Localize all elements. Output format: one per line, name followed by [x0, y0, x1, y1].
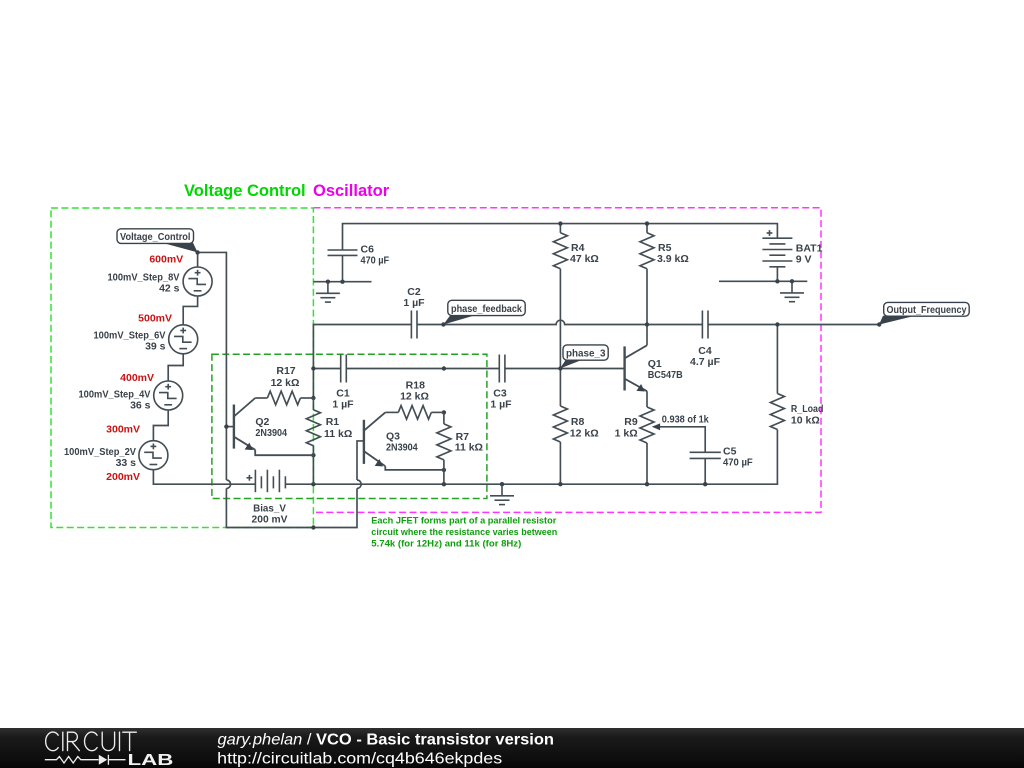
svg-text:12 kΩ: 12 kΩ	[400, 390, 429, 402]
wire: Voltage_Control node to control column	[198, 252, 227, 480]
svg-text:11 kΩ: 11 kΩ	[324, 428, 352, 440]
junction: R17 / R1	[311, 396, 315, 400]
svg-text:circuit where the resistance v: circuit where the resistance varies betw…	[371, 527, 557, 538]
junction: BAT1 negative lead	[775, 279, 779, 283]
junction: bottom rail / ground	[500, 482, 504, 486]
green dashed box: JFET parallel resistor section	[212, 354, 487, 498]
wire: source chain S1 top lead	[197, 252, 199, 267]
transistor Q2 2N3904	[234, 398, 314, 455]
wire: Q3 base column up to base	[357, 441, 364, 480]
green dashed box: Voltage Control section	[51, 208, 313, 528]
node callout phase_3	[560, 345, 608, 369]
voltage source 100mV_Step_4V	[79, 381, 183, 411]
CircuitLab logo: resistor-diode glyph	[45, 755, 126, 765]
annotation note about JFET parallel resistor	[371, 515, 557, 549]
node callout Voltage_Control	[117, 229, 198, 253]
svg-text:R4: R4	[571, 242, 585, 254]
junction: C1 rail / R18-R7 column	[442, 366, 446, 370]
junction: top rail / R5	[645, 221, 649, 225]
svg-text:36 s: 36 s	[130, 399, 151, 411]
wire: R5 top lead	[646, 224, 648, 233]
junction: Q2 emitter / R1	[311, 453, 315, 457]
wire: output rail C4 to R_Load and Output_Frequency	[708, 324, 879, 326]
wire: R9 wiper to C5	[659, 427, 706, 453]
voltage source 100mV_Step_8V	[108, 267, 213, 296]
resistor R_Load	[770, 394, 823, 430]
svg-text:Output_Frequency: Output_Frequency	[887, 304, 967, 316]
junction: C6 ground wire / ground stem	[326, 280, 330, 284]
capacitor C3	[490, 355, 512, 411]
junction: bottom rail / R8	[558, 482, 562, 486]
svg-text:33 s: 33 s	[116, 457, 137, 469]
svg-text:42 s: 42 s	[159, 283, 180, 295]
svg-text:470 µF: 470 µF	[361, 254, 390, 266]
svg-text:R8: R8	[571, 416, 585, 428]
svg-text:200mV: 200mV	[106, 471, 140, 483]
wire: phase_feedback rail with hop over R4 column	[417, 320, 702, 324]
junction: bottom rail / R9	[645, 482, 649, 486]
junction: C6 ground wire / C6 lead	[340, 280, 344, 284]
svg-text:12 kΩ: 12 kΩ	[271, 377, 300, 389]
node callout Output_Frequency	[879, 302, 969, 324]
resistor R5	[640, 233, 689, 269]
wire: Q2 base lead	[226, 426, 234, 428]
transistor Q1 BC547B	[625, 345, 683, 391]
wire: control column hop over bottom rail	[226, 480, 230, 488]
resistor R8	[553, 406, 598, 442]
junction: output rail / R_Load	[775, 322, 779, 326]
svg-text:Voltage_Control: Voltage_Control	[120, 231, 191, 243]
svg-text:500mV: 500mV	[138, 312, 172, 324]
wire: Q3 base column hop over bottom rail	[357, 480, 361, 488]
node Output_Frequency junction	[877, 322, 881, 326]
capacitor C4	[690, 311, 721, 369]
junction: BAT1 ground stem	[790, 279, 794, 283]
svg-text:10 kΩ: 10 kΩ	[791, 415, 820, 427]
junction: Q3 emitter / R7	[442, 468, 446, 472]
CircuitLab logo: CIRCUIT letters	[46, 732, 137, 751]
svg-text:Voltage Control: Voltage Control	[184, 182, 306, 200]
svg-text:R17: R17	[276, 365, 295, 377]
wire: phase_3 rail C1 to C3	[346, 368, 499, 370]
svg-text:R5: R5	[658, 242, 672, 254]
voltage source 100mV_Step_6V	[94, 325, 198, 354]
capacitor C2	[403, 286, 425, 338]
svg-text:R_Load: R_Load	[791, 403, 824, 415]
wire: S4 bottom to bottom rail and battery	[153, 470, 255, 485]
wire: Q1 emitter to R9	[646, 391, 648, 407]
svg-text:47 kΩ: 47 kΩ	[570, 253, 599, 265]
node Voltage_Control junction	[195, 250, 199, 254]
junction: bottom rail / C5	[703, 482, 707, 486]
wire: R4 top lead	[559, 224, 561, 233]
svg-text:1 µF: 1 µF	[403, 297, 425, 309]
wire: S3 to S4 jog	[153, 410, 168, 441]
junction: control bias wire corner	[311, 525, 315, 529]
wire: R1 column phase_3 node down to R17 node	[312, 369, 314, 399]
voltage source 100mV_Step_2V	[64, 441, 168, 470]
svg-text:phase_feedback: phase_feedback	[451, 303, 522, 315]
resistor R4	[553, 233, 598, 269]
wire: top supply rail	[343, 224, 778, 250]
resistor R9 potentiometer	[615, 407, 709, 443]
transistor Q3 2N3904	[364, 412, 444, 470]
wire: R_Load top lead	[776, 325, 778, 394]
junction: bottom rail / R7 column	[442, 482, 446, 486]
wire: R7/Q3 emitter node to bottom rail	[443, 470, 445, 484]
svg-text:11 kΩ: 11 kΩ	[455, 442, 483, 454]
wire: R5 bottom lead to output rail and Q1 collector	[646, 269, 648, 346]
wire: R1 bottom to battery rail	[312, 455, 314, 484]
svg-text:phase_3: phase_3	[566, 347, 606, 359]
svg-text:1 µF: 1 µF	[332, 398, 354, 410]
wire: R8 top lead	[559, 369, 561, 407]
svg-text:5.74k (for 12Hz) and 11k (for: 5.74k (for 12Hz) and 11k (for 8Hz)	[371, 538, 521, 549]
svg-text:4.7 µF: 4.7 µF	[690, 356, 721, 368]
wire: R9 bottom lead	[646, 443, 648, 484]
capacitor C5	[690, 445, 754, 468]
ground (BAT1)	[780, 281, 804, 301]
wire: BAT1 bottom lead	[776, 267, 778, 282]
svg-text:470 µF: 470 µF	[723, 456, 753, 468]
svg-text:BC547B: BC547B	[648, 369, 683, 381]
svg-text:3.9 kΩ: 3.9 kΩ	[657, 253, 689, 265]
capacitor C1	[332, 355, 354, 411]
battery Bias_V	[247, 470, 288, 526]
svg-text:R1: R1	[326, 416, 340, 428]
resistor R7	[437, 412, 483, 470]
svg-text:gary.phelan / VCO - Basic tran: gary.phelan / VCO - Basic transistor ver…	[218, 732, 555, 749]
svg-text:9 V: 9 V	[796, 254, 812, 266]
resistor R1	[306, 398, 352, 455]
resistor R17	[255, 365, 313, 405]
svg-text:600mV: 600mV	[149, 254, 183, 266]
wire: battery to bottom rail across to R_Load corner	[285, 430, 777, 485]
wire: R8 bottom lead	[559, 442, 561, 484]
wire: C5 bottom lead	[704, 458, 706, 484]
svg-text:2N3904: 2N3904	[386, 441, 418, 453]
wire: phase_feedback rail left corner down to R1 column	[313, 325, 411, 369]
magenta dashed box: Oscillator section	[313, 208, 821, 513]
footer bar	[0, 728, 1024, 768]
battery BAT1	[762, 230, 822, 267]
svg-text:LAB: LAB	[128, 752, 174, 768]
svg-text:Oscillator: Oscillator	[313, 182, 390, 200]
junction: bottom rail / Bias_V / R1 column	[311, 482, 315, 486]
ground (bottom rail)	[490, 484, 514, 504]
junction: C1 rail / R1 column	[311, 366, 315, 370]
wire: S2 to S3 jog	[168, 354, 183, 381]
junction: R18 / R7	[442, 410, 446, 414]
wire: R4 bottom lead	[559, 269, 561, 369]
svg-text:39 s: 39 s	[145, 340, 166, 352]
resistor R18	[385, 379, 444, 419]
svg-text:1 kΩ: 1 kΩ	[615, 428, 638, 440]
junction: output rail / R5 / Q1 collector	[645, 322, 649, 326]
svg-text:2N3904: 2N3904	[255, 427, 287, 439]
wire: phase_3 rail from R1 column to C1	[313, 368, 340, 370]
junction: control column / Q2 base	[224, 424, 228, 428]
node phase_feedback junction	[441, 322, 445, 326]
svg-text:Each JFET forms part of a para: Each JFET forms part of a parallel resis…	[371, 515, 556, 526]
capacitor C6	[328, 243, 390, 281]
node callout phase_feedback	[443, 300, 525, 324]
node phase_3 junction	[558, 366, 562, 370]
ground (C6)	[316, 282, 340, 302]
svg-text:http://circuitlab.com/cq4b646e: http://circuitlab.com/cq4b646ekpdes	[217, 750, 502, 767]
svg-text:0.938 of 1k: 0.938 of 1k	[662, 413, 709, 425]
svg-text:1 µF: 1 µF	[490, 398, 512, 410]
wire: BAT1 ground wire	[719, 280, 807, 282]
svg-text:R9: R9	[624, 416, 638, 428]
wire: C6 ground wire	[313, 281, 371, 283]
svg-text:200 mV: 200 mV	[252, 513, 288, 525]
wire: phase_3 rail C3 to Q1 base	[505, 368, 625, 370]
wire: S1 to S2 jog	[183, 296, 197, 325]
svg-text:400mV: 400mV	[120, 372, 154, 384]
junction: top rail / R4	[558, 221, 562, 225]
svg-text:12 kΩ: 12 kΩ	[570, 428, 599, 440]
svg-text:300mV: 300mV	[106, 423, 140, 435]
wire: control column to bottom corner and across to Q3 base column	[226, 488, 357, 527]
